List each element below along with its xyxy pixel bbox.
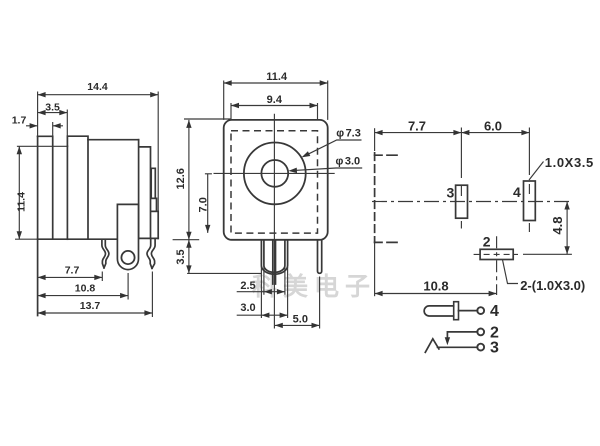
- main horizontal centerline: [372, 201, 570, 203]
- right small rect 2: [151, 198, 156, 211]
- bottom extension line for 11.4: [15, 238, 38, 240]
- label phi 7.3 with leader: [300, 128, 361, 160]
- svg-text:7.7: 7.7: [408, 119, 426, 134]
- label 1.0X3.5 with leader: [529, 155, 594, 180]
- svg-text:φ7.3: φ7.3: [336, 128, 361, 140]
- internal vertical line x=67.4: [66, 146, 68, 239]
- outer circle phi7.3: [244, 143, 306, 205]
- terminal 4 circle and label: [477, 307, 484, 314]
- terminal 2 circle and label: [477, 329, 484, 336]
- svg-text:7.0: 7.0: [198, 197, 210, 212]
- svg-text:3.0: 3.0: [240, 302, 255, 314]
- svg-text:3: 3: [490, 340, 499, 357]
- dimension 11.4 left: [16, 146, 28, 239]
- svg-text:11.4: 11.4: [266, 71, 288, 83]
- solder lug with hole: [117, 204, 138, 269]
- dashed body outline: [375, 128, 397, 296]
- vertical centerline: [273, 114, 275, 329]
- svg-text:科美电子: 科美电子: [252, 272, 376, 301]
- svg-text:11.4: 11.4: [16, 192, 28, 212]
- dimension 12.6: [173, 119, 232, 240]
- terminal 2 wire with arrow: [445, 332, 478, 345]
- svg-text:5.0: 5.0: [293, 313, 308, 325]
- dimension 10.8 right view: [375, 279, 497, 297]
- svg-text:2: 2: [483, 233, 491, 249]
- dimension 11.4 middle: [224, 71, 328, 120]
- pin 2 pad: [480, 249, 513, 259]
- label phi 3.0 with leader: [288, 155, 362, 173]
- dimension 9.4: [231, 94, 318, 120]
- right wavy pin: [147, 240, 155, 269]
- dimension 14.4: [38, 81, 159, 211]
- right pin of front view: [318, 240, 322, 274]
- dimension 13.7 bottom: [38, 272, 153, 318]
- body bottom edge: [38, 237, 159, 240]
- svg-text:9.4: 9.4: [267, 94, 283, 106]
- tab A on top: [38, 136, 53, 239]
- svg-text:13.7: 13.7: [80, 300, 101, 312]
- front body rounded square: [224, 120, 328, 240]
- svg-text:12.6: 12.6: [175, 168, 187, 189]
- dimension 7.7 / 6.0 top: [375, 119, 530, 136]
- inner circle phi3.0: [261, 160, 288, 187]
- center pin symbol (pin 4): [424, 302, 477, 320]
- svg-text:1.7: 1.7: [12, 115, 27, 127]
- inner dashed rect: [231, 131, 318, 233]
- pin 3 pad: [456, 185, 468, 218]
- dimension 2.5: [237, 280, 285, 294]
- svg-text:3.5: 3.5: [175, 249, 187, 264]
- horizontal centerline: [214, 172, 335, 174]
- side view top surface line (with 11.4 extension to left): [17, 145, 68, 147]
- dimension 3.5 lower-left: [175, 240, 261, 274]
- tab B on top: [67, 136, 88, 239]
- svg-text:3: 3: [447, 185, 455, 201]
- svg-text:1.0X3.5: 1.0X3.5: [545, 155, 594, 170]
- dimension 3.5 top: [38, 102, 68, 137]
- svg-text:10.8: 10.8: [423, 279, 448, 294]
- svg-text:4: 4: [513, 184, 521, 200]
- dimension 7.0: [198, 174, 212, 233]
- terminal 3 wire with switch contact: [425, 339, 477, 353]
- svg-text:6.0: 6.0: [484, 119, 502, 134]
- right small rect 3: [151, 211, 158, 238]
- center pin: [273, 241, 276, 285]
- svg-text:4: 4: [490, 303, 499, 320]
- svg-text:10.8: 10.8: [75, 283, 96, 295]
- svg-text:φ3.0: φ3.0: [336, 155, 361, 167]
- dimension 1.7: [12, 115, 63, 137]
- dimension 5.0: [275, 313, 320, 328]
- label 2-(1.0X3.0) with leader: [503, 260, 586, 293]
- svg-text:3.5: 3.5: [45, 102, 60, 114]
- body right step: [139, 140, 151, 239]
- right small rect 1: [151, 168, 155, 198]
- svg-text:14.4: 14.4: [87, 81, 108, 93]
- side view body left edge and bottom dims extension: [37, 136, 39, 315]
- main body top edge: [88, 139, 139, 141]
- dimension 3.0: [237, 302, 288, 318]
- left wavy pin: [102, 240, 109, 268]
- pin 3 centerline: [460, 128, 462, 229]
- terminal 3 circle and label: [477, 344, 484, 351]
- dimension 4.8: [523, 202, 572, 255]
- dimension 7.7 bottom: [38, 264, 103, 281]
- center shield pin U shape: [261, 241, 287, 274]
- svg-text:4.8: 4.8: [550, 217, 565, 235]
- pin 4 pad: [524, 181, 536, 221]
- pin 2 centerlines: [474, 253, 518, 255]
- pin 4 centerline: [528, 128, 530, 233]
- dimension 10.8 bottom: [38, 273, 129, 300]
- svg-text:2-(1.0X3.0): 2-(1.0X3.0): [520, 278, 585, 293]
- extension lines below U pin: [261, 266, 319, 329]
- svg-text:7.7: 7.7: [65, 264, 80, 276]
- svg-text:2.5: 2.5: [240, 280, 255, 292]
